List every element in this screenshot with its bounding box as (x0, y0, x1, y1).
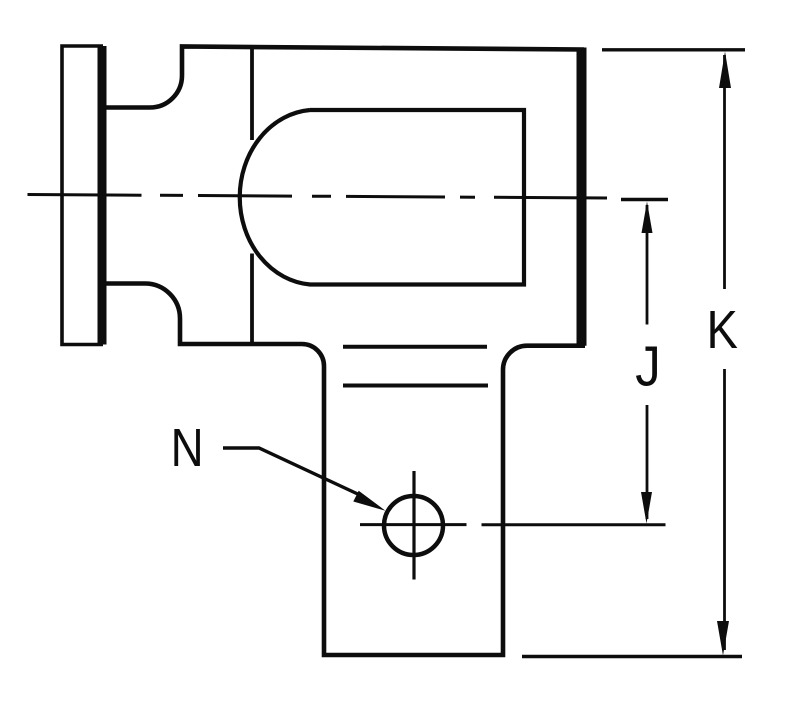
svg-text:K: K (707, 300, 738, 360)
svg-text:J: J (635, 335, 661, 399)
svg-text:N: N (171, 418, 204, 478)
